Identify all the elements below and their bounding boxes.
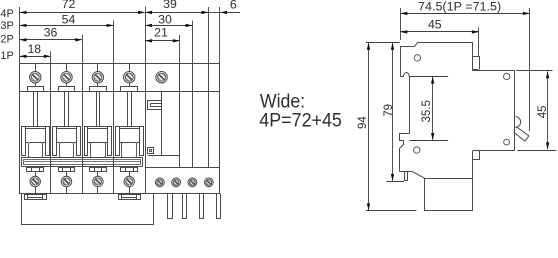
- front view: terminal strip separation line: [20, 91, 220, 93]
- pole 4: handle window collar: [115, 126, 143, 128]
- pole 3: lower clamp tabs: [90, 168, 107, 172]
- side view: bottom ledge and clip slot: [400, 171, 412, 173]
- mounting foot under pole 4: [119, 195, 141, 200]
- pole 2: handle window collar: [53, 126, 81, 128]
- side view: bottom block: [425, 179, 473, 211]
- side view: mounting hole bottom-right: [504, 139, 510, 145]
- side view: top step notch: [473, 57, 480, 70]
- RCD terminal screw 2: [172, 178, 181, 187]
- extension line 74.5 right / wedge tip: [529, 8, 531, 131]
- svg-text:3P: 3P: [0, 20, 13, 32]
- RCD section: recessed panel right edge: [161, 91, 163, 155]
- pole 1: bottom screw post: [35, 171, 37, 176]
- dimension 18 (1P width): [20, 56, 50, 58]
- extension line 6 right / body edge: [219, 7, 221, 63]
- pole 4: lower clamp tabs: [121, 168, 138, 172]
- extension line 39/6: [208, 7, 210, 63]
- pole 2: screw post wire above/below screw: [66, 63, 68, 72]
- pole 1: actuator channel lines: [33, 91, 35, 126]
- svg-text:Wide:: Wide:: [260, 91, 305, 112]
- pole 1: handle window collar: [21, 126, 49, 128]
- front view: pole divider line 3: [113, 63, 115, 194]
- pole 4: top terminal screw: [124, 72, 135, 83]
- pole 2: actuator channel lines: [64, 91, 66, 126]
- side view: toggle pivot arc: [515, 117, 521, 128]
- dimension 36 (2P width): [20, 39, 82, 41]
- extension line bottom 79: [387, 181, 405, 183]
- pole 2: bottom screw post: [66, 171, 68, 176]
- extension line bottom 35.5: [409, 140, 448, 142]
- pole 4: toggle handle: [119, 128, 139, 130]
- mounting foot under pole 1: [25, 195, 47, 200]
- pole 3: bottom terminal screw: [93, 176, 103, 186]
- svg-text:45: 45: [537, 106, 549, 119]
- extension line 18/1P: [50, 51, 52, 63]
- pole 1: top terminal screw: [30, 72, 41, 83]
- RCD terminal screw 3: [188, 178, 197, 187]
- extension line top (94/79): [366, 42, 400, 44]
- pole 3: bottom screw post: [97, 171, 99, 176]
- extension line 72+39 datum: [145, 7, 147, 64]
- RCD section: terminal strip line: [145, 167, 220, 169]
- extension line 30: [192, 21, 194, 64]
- front view: 4P breaker body outline: [20, 64, 220, 194]
- dimension 72 (4P width): [20, 12, 145, 14]
- svg-text:74.5(1P =71.5): 74.5(1P =71.5): [418, 0, 501, 14]
- side view: left edge jog with spring bump: [401, 72, 410, 76]
- dimension 39 (RCD width): [146, 12, 208, 14]
- extension line 45 top right: [478, 28, 480, 57]
- side view: diagonal to bottom block: [412, 171, 425, 178]
- svg-text:4P: 4P: [0, 8, 13, 20]
- svg-text:54: 54: [62, 12, 76, 26]
- side view: mounting hole bottom-left: [414, 147, 420, 153]
- dimension 30: [146, 25, 192, 27]
- pole 1: toggle handle: [25, 128, 45, 130]
- side view: mounting hole top-left: [414, 55, 420, 61]
- side view: line from block to front notch: [472, 160, 474, 179]
- pole 3: top terminal clamp rectangle: [90, 87, 107, 92]
- pole 3: top terminal screw: [92, 72, 103, 83]
- svg-text:2P: 2P: [0, 34, 13, 46]
- pole 3: handle window collar: [84, 126, 112, 128]
- svg-text:39: 39: [163, 0, 177, 11]
- side view: bottom-front notch: [473, 151, 480, 160]
- RCD section: panel bottom step line: [148, 155, 180, 157]
- pole 4: top terminal clamp rectangle: [121, 87, 138, 92]
- RCD section: top screw: [156, 72, 167, 83]
- dimension 21: [146, 40, 180, 42]
- RCD section: internal vertical lines: [179, 63, 181, 168]
- side view: breaker profile outline: [401, 43, 479, 77]
- side view: front face right edge: [514, 71, 516, 151]
- side view: mounting hole top-right: [504, 73, 510, 79]
- svg-text:36: 36: [44, 26, 58, 40]
- pole 2: top terminal screw: [61, 72, 72, 83]
- RCD pin prong 3: [200, 194, 204, 219]
- svg-text:94: 94: [357, 116, 369, 129]
- bottom DIN-rail block of front view: [22, 194, 154, 225]
- extension line 21: [179, 35, 181, 63]
- extension line 74.5 left: [400, 8, 402, 40]
- svg-text:6: 6: [230, 0, 237, 11]
- side view: toggle wedge handle: [514, 127, 529, 142]
- svg-text:35.5: 35.5: [421, 100, 433, 122]
- front view: pole divider line 4: [145, 63, 147, 194]
- dimension 54 (3P width): [20, 25, 113, 27]
- pole 2: lower clamp tabs: [59, 168, 75, 172]
- RCD terminal screw 1: [155, 178, 164, 187]
- RCD pin prong 2: [183, 194, 187, 219]
- extension line 54/3P: [113, 21, 115, 64]
- pole 2: toggle handle: [57, 128, 77, 130]
- RCD pin prong 4: [217, 194, 221, 219]
- side view: DIN clip top hook: [400, 134, 410, 172]
- pole 4: actuator channel lines: [127, 91, 129, 126]
- svg-text:21: 21: [154, 26, 168, 40]
- svg-text:45: 45: [428, 17, 442, 31]
- pole 4: bottom terminal screw: [124, 176, 134, 186]
- front view: pole divider line 1: [50, 63, 52, 194]
- RCD terminal screw 4: [204, 178, 213, 187]
- svg-text:30: 30: [158, 12, 172, 26]
- pole 3: actuator channel lines: [96, 91, 98, 126]
- pole 1: top terminal clamp rectangle: [28, 87, 44, 92]
- pole 3: toggle handle: [88, 128, 108, 130]
- pole 4: screw post wire above/below screw: [129, 63, 131, 72]
- svg-text:79: 79: [383, 104, 395, 117]
- pole 4: bottom screw post: [129, 171, 131, 176]
- extension line bottom 94: [366, 210, 416, 212]
- pole 2: top terminal clamp rectangle: [59, 87, 75, 92]
- extension line 36/2P: [82, 35, 84, 63]
- svg-text:4P=72+45: 4P=72+45: [259, 111, 342, 132]
- pole 2: bottom terminal screw: [61, 176, 71, 186]
- dimension 6 (outside arrows): [209, 12, 220, 14]
- pole 1: bottom terminal screw: [30, 176, 40, 186]
- extension line bottom 45 right: [517, 150, 556, 152]
- handle tie bar across 4 poles: [22, 158, 143, 167]
- extension line top 45 right: [517, 70, 553, 72]
- RCD pin prong 1: [168, 194, 173, 219]
- svg-text:1P: 1P: [0, 50, 13, 62]
- front view: pole divider line 2: [82, 63, 84, 194]
- side view: front section bottom edge: [473, 150, 515, 152]
- RCD section: test button: [148, 101, 162, 110]
- extension line top 35.5: [409, 76, 448, 78]
- side view: front ledge line: [472, 70, 515, 72]
- pole 3: screw post wire above/below screw: [97, 63, 99, 72]
- RCD section: indicator square: [148, 148, 154, 154]
- svg-text:18: 18: [27, 42, 41, 56]
- pole 1: screw post wire above/below screw: [35, 63, 37, 72]
- extension line x=19.5 (left datum): [19, 7, 21, 63]
- svg-text:72: 72: [62, 0, 76, 11]
- pole 1: lower clamp tabs: [27, 168, 44, 172]
